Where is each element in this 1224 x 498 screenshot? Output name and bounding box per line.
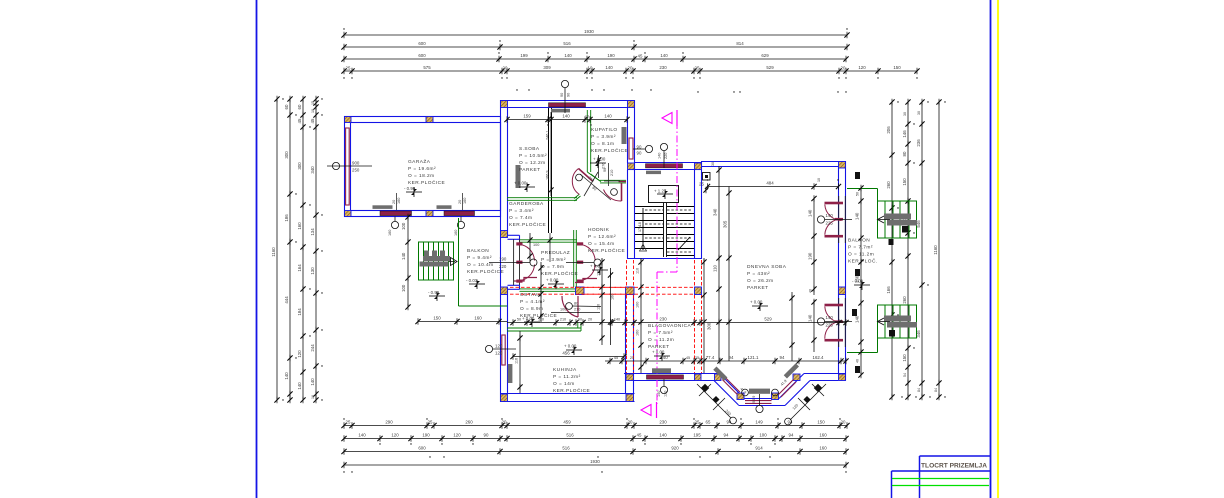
svg-text:290: 290 bbox=[385, 420, 393, 425]
svg-text:814: 814 bbox=[736, 41, 744, 46]
svg-text:PREDULAZ: PREDULAZ bbox=[541, 250, 570, 256]
svg-text:30: 30 bbox=[711, 162, 715, 166]
svg-text:+ 0.00: + 0.00 bbox=[590, 264, 603, 269]
svg-text:276: 276 bbox=[602, 163, 606, 169]
svg-text:30: 30 bbox=[903, 112, 907, 116]
left dimension chain lines bbox=[277, 99, 316, 400]
svg-text:54: 54 bbox=[903, 373, 907, 377]
svg-text:45: 45 bbox=[637, 433, 642, 438]
svg-text:O = 8.1m: O = 8.1m bbox=[591, 141, 614, 147]
predulaz/ostava partition green bbox=[520, 288, 576, 290]
predulaz vdim bbox=[540, 262, 542, 322]
svg-text:140: 140 bbox=[562, 114, 570, 119]
svg-text:O = 15.4m: O = 15.4m bbox=[588, 241, 615, 247]
svg-text:340: 340 bbox=[310, 166, 315, 174]
living bottom wall left part bbox=[624, 373, 720, 375]
living right wall lower window: maroon french window bbox=[839, 298, 846, 347]
magenta arrow top bbox=[662, 113, 672, 124]
kitchen bottom wall bbox=[501, 393, 635, 395]
top chain ticks bbox=[341, 32, 919, 74]
bottom wall right part bbox=[804, 373, 846, 375]
balcony door french maroon bbox=[514, 239, 520, 285]
svg-text:46: 46 bbox=[856, 359, 860, 363]
svg-text:459: 459 bbox=[563, 420, 571, 425]
kitchen right wall bbox=[625, 295, 627, 393]
living window dim vline bbox=[813, 199, 815, 296]
svg-text:900: 900 bbox=[352, 161, 360, 166]
hodnik-s.soba corner door maroon bbox=[572, 169, 593, 195]
svg-text:BALKON: BALKON bbox=[467, 248, 489, 254]
svg-text:15: 15 bbox=[311, 101, 315, 105]
svg-text:186: 186 bbox=[284, 214, 289, 222]
svg-text:244: 244 bbox=[310, 344, 315, 352]
dim line left balcony bottom bbox=[418, 321, 507, 323]
svg-text:160: 160 bbox=[636, 330, 640, 336]
svg-text:190: 190 bbox=[422, 433, 430, 438]
svg-text:P = 11.2m²: P = 11.2m² bbox=[553, 374, 581, 380]
svg-text:PARKET: PARKET bbox=[519, 167, 541, 173]
vdims between kitchen and blago bbox=[640, 258, 642, 373]
svg-text:120: 120 bbox=[495, 344, 503, 349]
svg-text:914: 914 bbox=[755, 446, 763, 451]
svg-text:+ 0.00: + 0.00 bbox=[750, 300, 763, 305]
svg-text:120: 120 bbox=[297, 350, 302, 358]
top dimension chain lines bbox=[344, 35, 917, 71]
bay diagonal right bbox=[779, 374, 804, 399]
svg-text:100: 100 bbox=[401, 284, 406, 292]
right terrace lower green bbox=[847, 305, 917, 353]
house outer walls bbox=[501, 100, 847, 406]
left chain labels bbox=[271, 101, 315, 399]
svg-text:220: 220 bbox=[664, 153, 668, 159]
svg-text:25: 25 bbox=[699, 182, 704, 187]
svg-text:O = 7.4m: O = 7.4m bbox=[509, 215, 532, 221]
svg-text:120: 120 bbox=[495, 351, 503, 356]
svg-text:199: 199 bbox=[520, 53, 528, 58]
svg-text:210: 210 bbox=[560, 318, 566, 322]
svg-text:20: 20 bbox=[588, 318, 592, 322]
svg-text:230: 230 bbox=[659, 420, 667, 425]
svg-text:184: 184 bbox=[297, 308, 302, 316]
svg-text:166.9: 166.9 bbox=[546, 170, 550, 180]
tag 190/220 bbox=[530, 259, 537, 266]
small black squares bbox=[852, 172, 908, 373]
svg-text:P = 10.5m²: P = 10.5m² bbox=[519, 153, 547, 159]
svg-text:140: 140 bbox=[297, 382, 302, 390]
svg-text:140: 140 bbox=[358, 433, 366, 438]
predulaz entry doors maroon bbox=[577, 242, 583, 282]
svg-text:KER.PLOČICE: KER.PLOČICE bbox=[588, 247, 625, 254]
bay diagonal left bbox=[720, 374, 745, 399]
svg-text:77.4: 77.4 bbox=[706, 355, 715, 360]
svg-text:300: 300 bbox=[297, 162, 302, 170]
svg-text:1930: 1930 bbox=[590, 459, 600, 464]
lower window tag bbox=[817, 318, 824, 325]
svg-text:KUHINJA: KUHINJA bbox=[553, 367, 577, 373]
right chain labels bbox=[886, 111, 938, 392]
svg-text:KER.PLOČICE: KER.PLOČICE bbox=[541, 270, 578, 277]
svg-text:20: 20 bbox=[841, 66, 846, 71]
kitchen 456 dim bbox=[513, 356, 624, 358]
svg-text:94: 94 bbox=[724, 433, 729, 438]
garage level mark bbox=[406, 188, 422, 198]
border yellow line bbox=[997, 0, 999, 498]
svg-text:309: 309 bbox=[543, 65, 551, 70]
hodnik small dims bbox=[608, 163, 610, 186]
svg-text:150: 150 bbox=[817, 420, 825, 425]
svg-text:230: 230 bbox=[659, 317, 667, 322]
svg-text:16: 16 bbox=[311, 395, 315, 399]
svg-text:110: 110 bbox=[597, 304, 601, 310]
ostava bottom partition bbox=[507, 327, 581, 329]
svg-text:260: 260 bbox=[886, 181, 891, 189]
left chain ticks bbox=[274, 96, 318, 403]
svg-text:94: 94 bbox=[789, 433, 794, 438]
svg-text:KER.PLOČICE: KER.PLOČICE bbox=[408, 179, 445, 186]
svg-text:140: 140 bbox=[855, 315, 860, 323]
dim inside top block bbox=[507, 119, 627, 121]
terrace entry arrow bbox=[878, 216, 885, 223]
red dashed beam lines bbox=[510, 260, 702, 373]
predulaz top maroon jamb bbox=[575, 279, 597, 283]
interior vdims living bbox=[718, 166, 720, 361]
garage window sills gray bbox=[373, 205, 393, 209]
svg-text:195: 195 bbox=[693, 433, 701, 438]
svg-text:140: 140 bbox=[660, 355, 668, 360]
svg-text:BLAGOVAONICA: BLAGOVAONICA bbox=[648, 323, 692, 329]
svg-text:305: 305 bbox=[723, 220, 728, 228]
garage left window tag bbox=[332, 162, 339, 169]
svg-text:100: 100 bbox=[636, 302, 640, 308]
svg-text:456: 456 bbox=[562, 351, 570, 356]
svg-text:100: 100 bbox=[401, 222, 406, 230]
svg-text:P = 12.6m²: P = 12.6m² bbox=[588, 234, 616, 240]
green partition garderoba top bbox=[507, 110, 626, 331]
left chain witness dots bbox=[282, 98, 322, 400]
svg-text:140: 140 bbox=[310, 378, 315, 386]
svg-text:120: 120 bbox=[664, 391, 668, 397]
svg-text:516: 516 bbox=[562, 446, 570, 451]
kitchen window maroon bbox=[502, 335, 505, 365]
svg-text:120: 120 bbox=[391, 433, 399, 438]
entry arrow bbox=[451, 258, 458, 266]
svg-text:P = 3.9m²: P = 3.9m² bbox=[541, 257, 566, 263]
svg-text:80: 80 bbox=[902, 151, 907, 156]
svg-text:484: 484 bbox=[766, 181, 774, 186]
magenta arrow bottom bbox=[641, 405, 651, 416]
svg-text:90: 90 bbox=[484, 433, 489, 438]
balkon L label bbox=[467, 248, 504, 275]
svg-text:529: 529 bbox=[766, 65, 774, 70]
svg-text:160: 160 bbox=[819, 446, 827, 451]
room texts bbox=[519, 146, 547, 173]
svg-text:444: 444 bbox=[284, 296, 289, 304]
bay diagonal dim right bbox=[790, 384, 826, 420]
kupatilo partition bbox=[586, 110, 588, 172]
ostava door maroon bbox=[562, 296, 578, 317]
right terrace upper green bbox=[847, 189, 917, 239]
svg-text:40: 40 bbox=[809, 289, 813, 293]
garage outer walls bbox=[345, 117, 501, 217]
svg-text:DNEVNA SOBA: DNEVNA SOBA bbox=[747, 264, 787, 270]
predulaz/hodnik partition bbox=[573, 230, 575, 287]
stairs bbox=[635, 186, 694, 258]
svg-text:100: 100 bbox=[759, 433, 767, 438]
svg-text:110: 110 bbox=[636, 268, 640, 274]
svg-text:P = 3.4m²: P = 3.4m² bbox=[509, 208, 534, 214]
stairwell top wall bbox=[634, 162, 702, 164]
svg-text:160: 160 bbox=[297, 222, 302, 230]
title block frame bbox=[892, 456, 991, 498]
vertical dim below garage bbox=[407, 217, 409, 307]
svg-text:516: 516 bbox=[563, 41, 571, 46]
svg-text:30: 30 bbox=[917, 111, 921, 115]
vdim right of living wall bbox=[860, 188, 862, 375]
svg-text:246.1: 246.1 bbox=[546, 130, 550, 140]
svg-text:10: 10 bbox=[588, 66, 593, 71]
svg-text:KUPATILO: KUPATILO bbox=[591, 127, 618, 133]
svg-text:+ 0.00: + 0.00 bbox=[514, 181, 527, 186]
svg-text:25: 25 bbox=[630, 356, 634, 360]
stairwell side walls bbox=[627, 170, 629, 259]
magenta section line bbox=[657, 122, 677, 404]
left balcony green stair bbox=[419, 218, 508, 306]
svg-text:PARKET: PARKET bbox=[747, 285, 769, 291]
svg-text:140: 140 bbox=[808, 314, 813, 322]
svg-text:50: 50 bbox=[856, 192, 860, 196]
svg-text:90: 90 bbox=[637, 151, 642, 156]
svg-text:20: 20 bbox=[458, 200, 462, 204]
svg-text:920: 920 bbox=[671, 446, 679, 451]
svg-text:45: 45 bbox=[297, 118, 302, 123]
svg-text:25: 25 bbox=[695, 356, 699, 360]
tag 120/120 kitchen bbox=[485, 345, 492, 352]
svg-text:110: 110 bbox=[597, 270, 601, 276]
square-in-square symbol bbox=[703, 173, 711, 181]
svg-text:O = 14m: O = 14m bbox=[553, 381, 575, 387]
svg-text:140: 140 bbox=[401, 252, 406, 260]
svg-text:110: 110 bbox=[713, 264, 718, 272]
svg-text:20: 20 bbox=[503, 66, 508, 71]
svg-text:60: 60 bbox=[284, 104, 289, 109]
svg-text:S.SOBA: S.SOBA bbox=[519, 146, 540, 152]
svg-text:KER.PLOČICE: KER.PLOČICE bbox=[509, 221, 546, 228]
svg-text:P = 3.9m²: P = 3.9m² bbox=[591, 134, 616, 140]
svg-text:P = 43m²: P = 43m² bbox=[747, 271, 770, 277]
right chain ticks bbox=[889, 99, 941, 400]
svg-text:O = 12.2m: O = 12.2m bbox=[519, 160, 546, 166]
svg-text:94: 94 bbox=[780, 355, 785, 360]
corner hatch columns of house bbox=[501, 101, 846, 402]
svg-text:+ 0.00: + 0.00 bbox=[522, 316, 535, 321]
kupatilo right wall window maroon bbox=[629, 138, 633, 159]
svg-text:O = 18.2m: O = 18.2m bbox=[408, 173, 435, 179]
garage left wall window maroon bbox=[346, 128, 350, 205]
vdim 246.1 bbox=[550, 112, 552, 196]
svg-text:100: 100 bbox=[560, 308, 566, 312]
svg-text:84: 84 bbox=[917, 388, 921, 392]
svg-text:160: 160 bbox=[397, 198, 401, 204]
svg-text:- 0.90: - 0.90 bbox=[404, 186, 416, 191]
svg-text:- 0.99: - 0.99 bbox=[428, 290, 440, 295]
svg-text:25: 25 bbox=[695, 66, 700, 71]
svg-text:260: 260 bbox=[465, 420, 473, 425]
svg-text:1160: 1160 bbox=[271, 247, 276, 257]
svg-text:P = 7.7m²: P = 7.7m² bbox=[848, 245, 873, 251]
svg-text:230: 230 bbox=[659, 65, 667, 70]
svg-text:- 0.01: - 0.01 bbox=[466, 278, 478, 283]
svg-text:1160: 1160 bbox=[933, 245, 938, 255]
top wall bbox=[501, 100, 635, 102]
svg-text:+ 1.27: + 1.27 bbox=[654, 189, 667, 194]
svg-text:O = 8.9m: O = 8.9m bbox=[520, 306, 543, 312]
svg-text:90: 90 bbox=[560, 93, 564, 97]
svg-text:190: 190 bbox=[607, 53, 615, 58]
central block right wall bbox=[627, 107, 629, 163]
garage corner hatch columns bbox=[345, 117, 434, 217]
svg-text:20: 20 bbox=[841, 420, 846, 425]
svg-text:190: 190 bbox=[808, 252, 813, 260]
svg-text:516: 516 bbox=[566, 433, 574, 438]
left vdim chain inner (x408 handled); kitchen vdim bbox=[519, 331, 521, 393]
bottom dimension chain lines bbox=[344, 426, 847, 466]
ostava tag bbox=[566, 303, 573, 310]
svg-text:10: 10 bbox=[817, 178, 821, 182]
svg-text:94.9: 94.9 bbox=[752, 396, 756, 403]
svg-text:600: 600 bbox=[418, 446, 426, 451]
svg-text:+ 0.00: + 0.00 bbox=[652, 350, 665, 355]
dim line ostava/kitchen row bbox=[507, 322, 846, 324]
predulaz door jambs bbox=[508, 234, 520, 236]
svg-text:GARDEROBA: GARDEROBA bbox=[509, 201, 544, 207]
svg-text:140: 140 bbox=[604, 114, 612, 119]
svg-text:130: 130 bbox=[310, 267, 315, 275]
svg-text:45: 45 bbox=[686, 356, 690, 360]
hodnik hdim bbox=[551, 312, 600, 314]
bottom chain labels bbox=[346, 420, 846, 465]
svg-text:P = 7.5m²: P = 7.5m² bbox=[648, 330, 673, 336]
garage top right vdim x550 bbox=[549, 233, 551, 262]
svg-text:OSTAVA: OSTAVA bbox=[520, 292, 541, 298]
svg-text:+ 0.00: + 0.00 bbox=[593, 157, 606, 162]
svg-text:KER.PLOČICE: KER.PLOČICE bbox=[467, 268, 504, 275]
svg-text:10: 10 bbox=[585, 115, 589, 119]
svg-text:94: 94 bbox=[729, 355, 734, 360]
svg-text:146: 146 bbox=[902, 130, 907, 138]
svg-text:164: 164 bbox=[297, 264, 302, 272]
svg-text:20: 20 bbox=[628, 420, 633, 425]
svg-text:20: 20 bbox=[502, 420, 507, 425]
svg-text:O = 11.2m: O = 11.2m bbox=[648, 337, 674, 343]
garage bottom wall windows maroon bbox=[380, 211, 412, 216]
svg-text:160: 160 bbox=[611, 294, 615, 300]
svg-text:250: 250 bbox=[352, 168, 360, 173]
border right blue line bbox=[990, 0, 992, 498]
svg-text:65: 65 bbox=[706, 420, 711, 425]
right dimension chain lines bbox=[892, 102, 939, 397]
garage bottom window tags bbox=[391, 221, 398, 228]
living lower window dim vline bbox=[813, 300, 815, 352]
svg-text:629: 629 bbox=[761, 53, 769, 58]
svg-text:150: 150 bbox=[902, 354, 907, 362]
svg-text:150: 150 bbox=[902, 178, 907, 186]
svg-text:O = 7.9m: O = 7.9m bbox=[541, 264, 564, 270]
svg-text:210: 210 bbox=[574, 308, 580, 312]
svg-text:300: 300 bbox=[284, 151, 289, 159]
svg-text:25: 25 bbox=[695, 420, 700, 425]
s.soba wardrobe gray bbox=[516, 165, 521, 188]
svg-text:160: 160 bbox=[474, 316, 482, 321]
svg-text:140: 140 bbox=[614, 318, 620, 322]
svg-text:300: 300 bbox=[707, 322, 712, 330]
svg-text:25: 25 bbox=[428, 420, 433, 425]
svg-text:60: 60 bbox=[297, 104, 302, 109]
svg-text:80: 80 bbox=[574, 302, 578, 306]
svg-text:206: 206 bbox=[886, 126, 891, 134]
top wall window maroon bbox=[549, 103, 586, 107]
svg-text:140: 140 bbox=[826, 315, 834, 320]
hodnik diagonal dim bbox=[580, 172, 611, 200]
svg-text:KER.PLOČICE: KER.PLOČICE bbox=[553, 387, 590, 394]
svg-text:121.1: 121.1 bbox=[748, 355, 760, 360]
svg-text:P = 9.4m²: P = 9.4m² bbox=[467, 255, 492, 261]
svg-text:236: 236 bbox=[916, 139, 921, 147]
bay diagonal dim left bbox=[697, 384, 731, 418]
svg-text:25: 25 bbox=[346, 420, 351, 425]
svg-text:140: 140 bbox=[658, 153, 662, 159]
svg-text:90: 90 bbox=[567, 93, 571, 97]
left wall bbox=[500, 100, 502, 402]
svg-text:120: 120 bbox=[453, 433, 461, 438]
svg-text:50: 50 bbox=[517, 318, 521, 322]
svg-text:20: 20 bbox=[392, 200, 396, 204]
svg-text:20: 20 bbox=[628, 66, 633, 71]
svg-text:140: 140 bbox=[808, 209, 813, 217]
bay bottom bbox=[745, 398, 780, 400]
svg-text:529: 529 bbox=[764, 317, 772, 322]
svg-text:140: 140 bbox=[564, 53, 572, 58]
blago left vdim bbox=[601, 258, 603, 345]
bottom chain witness dots bbox=[343, 418, 846, 472]
svg-text:140: 140 bbox=[605, 65, 613, 70]
svg-text:340: 340 bbox=[713, 208, 718, 216]
svg-text:150: 150 bbox=[433, 316, 441, 321]
svg-text:600: 600 bbox=[418, 53, 426, 58]
svg-text:KER.PLOČ.: KER.PLOČ. bbox=[848, 258, 878, 265]
living right wall upper window: maroon french window bbox=[839, 196, 846, 243]
svg-text:17x18: 17x18 bbox=[638, 222, 642, 232]
svg-text:166: 166 bbox=[886, 286, 891, 294]
svg-text:90: 90 bbox=[578, 318, 582, 322]
svg-text:210: 210 bbox=[610, 170, 614, 176]
svg-text:140: 140 bbox=[826, 213, 834, 218]
svg-text:134: 134 bbox=[310, 228, 315, 236]
border left blue line bbox=[256, 0, 258, 498]
wc door maroon bbox=[604, 182, 627, 202]
blago bottom window maroon bbox=[647, 375, 684, 379]
living right wall bbox=[838, 166, 840, 374]
bottom chain ticks bbox=[341, 422, 849, 468]
right chain witness dots bbox=[897, 101, 945, 397]
garderoba bottom partition bbox=[520, 239, 578, 241]
svg-text:160: 160 bbox=[454, 230, 458, 236]
svg-text:162.4: 162.4 bbox=[813, 355, 825, 360]
kupatilo gray fixture bbox=[622, 127, 627, 144]
svg-text:220: 220 bbox=[499, 264, 507, 269]
stairwell top window maroon bbox=[646, 164, 683, 168]
svg-text:120: 120 bbox=[858, 65, 866, 70]
living top wall bbox=[701, 161, 846, 163]
